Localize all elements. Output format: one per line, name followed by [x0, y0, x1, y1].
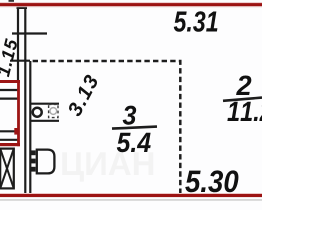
room 3 fraction line: [112, 127, 157, 129]
stray mark above top wall: [9, 0, 15, 2]
dimension tick T1: [12, 32, 47, 34]
dashed room boundary (horizontal + vertical): [33, 61, 181, 194]
wall line V2 (main vertical): [24, 5, 26, 195]
red wall vertical: [17, 80, 20, 146]
room 2 area 11.2: [227, 101, 272, 121]
window line 3: [0, 130, 18, 132]
room 3 number: [123, 106, 136, 125]
toilet tank square 3: [31, 167, 36, 172]
dimension text 1.15 (rotated): [0, 38, 18, 77]
room 3 area 5.4: [117, 133, 151, 153]
red window band bottom: [0, 143, 20, 146]
room 2 fraction line: [223, 98, 262, 101]
faint appliance circle: [50, 108, 57, 115]
shaft diagonal 2: [0, 149, 14, 189]
wall line V3 (lower second face): [29, 61, 31, 195]
room 2 number: [236, 75, 251, 95]
dashed appliance square: [49, 104, 58, 117]
ventilation shaft box: [0, 149, 14, 189]
wall top cap: [17, 5, 28, 9]
red wall bottom: [0, 193, 262, 194]
toilet tank square 2: [31, 159, 36, 164]
red notch: [14, 128, 17, 135]
burner circle: [33, 108, 42, 117]
dimension tick T2: [10, 60, 30, 62]
gray shadow line: [0, 199, 262, 200]
appliance box top/bottom: [30, 104, 59, 121]
window line 2: [0, 97, 18, 99]
watermark: [62, 152, 153, 181]
shaft diagonal 1: [0, 149, 14, 189]
toilet tank square 1: [31, 150, 36, 155]
dimension text 5.31: [174, 11, 218, 32]
red wall top: [0, 2, 262, 3]
dimension text 5.30: [185, 170, 238, 192]
window line 1: [0, 89, 18, 91]
window line 4: [0, 139, 18, 141]
wall line V1 (upper left face): [17, 5, 19, 81]
dimension text 3.13 (rotated): [67, 74, 99, 118]
toilet bowl: [37, 150, 55, 174]
red window band top: [0, 80, 20, 83]
